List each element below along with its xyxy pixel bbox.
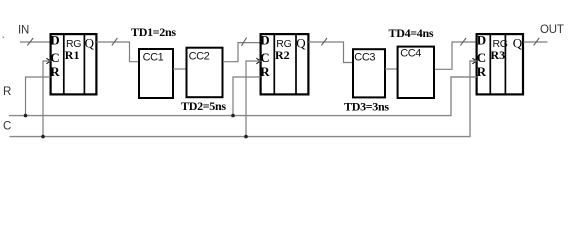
svg-text:C: C (477, 50, 486, 65)
bus slash on R2 Q wire (321, 38, 327, 45)
svg-text:TD2=5ns: TD2=5ns (181, 99, 226, 113)
wire CC3 to CC4 (385, 68, 398, 70)
node R label (3, 86, 11, 98)
wire CC1 to CC2 (173, 68, 187, 70)
svg-text:D: D (260, 33, 269, 48)
label TD1=2ns (131, 25, 176, 39)
wire CC2 to R2 D (223, 43, 260, 62)
register R2 (256, 33, 308, 95)
svg-text:R: R (260, 64, 270, 79)
combinational circuit CC1 (139, 49, 173, 98)
junction R1 C tap (41, 135, 45, 139)
junction R2 R tap (231, 114, 235, 118)
svg-text:IN: IN (18, 25, 29, 37)
svg-text:Q: Q (513, 36, 523, 51)
junction R1 R tap (24, 114, 28, 118)
label TD3=3ns (344, 100, 389, 114)
svg-text:CC4: CC4 (400, 48, 421, 60)
svg-text:R3: R3 (491, 48, 506, 62)
wire R rail tap to R2 R input (233, 77, 261, 116)
R rail wire (9, 77, 477, 116)
svg-text:R: R (477, 64, 487, 79)
svg-text:OUT: OUT (540, 24, 564, 36)
svg-text:R: R (50, 64, 60, 79)
node IN label (18, 25, 29, 37)
wire IN to R1 D (20, 41, 50, 43)
svg-text:CC3: CC3 (354, 51, 375, 63)
bus slash on OUT wire (534, 38, 540, 45)
svg-text:R2: R2 (275, 48, 290, 62)
combinational circuit CC4 (398, 47, 434, 98)
bus slash on IN wire (27, 38, 33, 45)
svg-text:D: D (50, 33, 59, 48)
svg-text:R1: R1 (65, 48, 80, 62)
node C label (3, 121, 11, 133)
wire R3 Q to OUT (524, 41, 548, 43)
wire R2 Q to CC3 (309, 42, 354, 63)
wire C rail tap to R1 C input (43, 61, 51, 137)
svg-text:CC1: CC1 (143, 51, 164, 63)
wire R rail tap to R1 R input (26, 77, 51, 116)
svg-text:TD3=3ns: TD3=3ns (344, 100, 389, 114)
bus slash on R2 D wire (241, 38, 246, 46)
C rail wire (10, 61, 477, 137)
combinational circuit CC3 (353, 49, 385, 97)
svg-text:TD4=4ns: TD4=4ns (389, 26, 434, 40)
svg-text:C: C (3, 121, 11, 133)
junction R2 C tap (244, 135, 248, 139)
label TD2=5ns (181, 99, 226, 113)
bus slash on R3 D wire (460, 38, 466, 45)
bus slash on R1 Q wire (112, 38, 118, 45)
label TD4=4ns (389, 26, 434, 40)
svg-text:TD1=2ns: TD1=2ns (131, 25, 176, 39)
svg-text:C: C (260, 50, 269, 65)
svg-text:Q: Q (296, 36, 306, 51)
svg-text:CC2: CC2 (189, 51, 210, 63)
node OUT label (540, 24, 564, 36)
register R3 (472, 33, 523, 95)
wire C rail tap to R2 C input (246, 61, 261, 137)
register R1 (46, 33, 96, 95)
wire R1 Q to CC1 (97, 42, 140, 62)
wire CC4 to R3 D (435, 42, 476, 69)
svg-text:R: R (3, 86, 11, 98)
svg-text:Q: Q (85, 36, 95, 51)
combinational circuit CC2 (187, 48, 223, 97)
speck artifact (3, 37, 5, 39)
svg-text:D: D (477, 33, 486, 48)
svg-text:C: C (50, 50, 59, 65)
